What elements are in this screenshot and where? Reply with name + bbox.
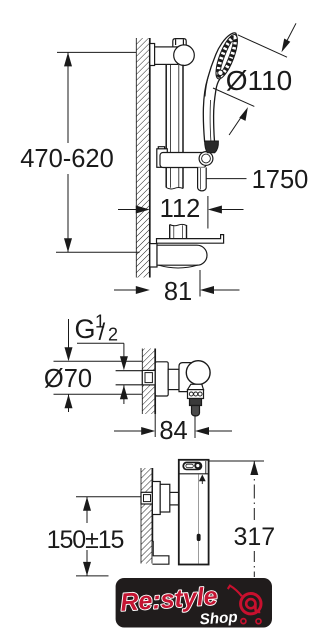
leader G1/2 <box>77 342 124 344</box>
svg-text:112: 112 <box>160 195 201 223</box>
body centerline with marker <box>197 475 201 564</box>
spray center circle <box>218 70 223 75</box>
soap dish tray <box>157 235 224 244</box>
pipe fitting in wall <box>142 370 155 385</box>
dimension Ø70 extension top <box>54 360 143 362</box>
hand shower head and handle outline <box>203 32 241 141</box>
dimension 150±15 <box>76 497 109 576</box>
dimension Ø70 extension bottom <box>54 393 143 395</box>
@ cart icon <box>228 586 261 624</box>
wall middle section <box>142 349 155 415</box>
wall fitting (inlet union) <box>141 492 152 504</box>
dimension 112 <box>118 196 244 229</box>
lower wall bracket step <box>152 542 169 565</box>
dimension Ø110 extension line top <box>238 35 287 57</box>
mixer housing <box>179 363 202 392</box>
top cap detail (outlet top view) <box>182 462 202 471</box>
svg-text:/: / <box>99 319 106 346</box>
dimension Ø110 arrow top <box>282 23 297 52</box>
svg-text:Shop: Shop <box>199 609 238 629</box>
dimension 150±15 top extension <box>76 496 143 498</box>
G1/2 arrow upper (points down to pipe top edge) <box>120 343 128 370</box>
svg-text:1750: 1750 <box>252 166 309 194</box>
mixer escutcheon <box>155 362 168 396</box>
dimension Ø110 arrow bottom <box>229 107 248 135</box>
soap dish wall bracket <box>150 244 207 268</box>
wall top section <box>136 38 150 278</box>
rail holder / slider <box>157 147 213 168</box>
dimension 470-620 extension line top <box>57 51 136 53</box>
inlet escutcheon plate <box>152 482 160 515</box>
G1/2 arrow lower (points up to pipe bottom edge) <box>120 385 128 404</box>
small arrow marker under cap <box>199 475 206 485</box>
dimension 470-620 extension line bottom <box>56 251 140 253</box>
dimension 84 <box>114 414 232 438</box>
dimension Ø70 arrow bottom <box>65 394 73 412</box>
svg-text:2: 2 <box>108 325 118 345</box>
dimension Ø110 extension line bottom <box>213 88 254 106</box>
svg-text:84: 84 <box>159 417 187 445</box>
handle connector (dark) <box>205 141 219 153</box>
dimension 470-620 line and arrows <box>64 52 72 252</box>
dimension Ø70 arrow top <box>65 319 73 361</box>
svg-text:G: G <box>75 314 96 344</box>
supply pipe behind wall <box>116 371 143 385</box>
inlet block <box>160 484 170 512</box>
spray plate ring <box>212 32 242 81</box>
rail lower stub <box>170 224 187 238</box>
dimension 317 top extension <box>209 460 264 462</box>
mixer neck <box>168 369 179 389</box>
thermostat body <box>179 460 209 565</box>
dimension 81 <box>114 270 240 297</box>
shower rail <box>166 65 183 189</box>
svg-text:150±15: 150±15 <box>47 526 124 554</box>
svg-text:317: 317 <box>233 523 275 551</box>
inlet pipe <box>170 492 179 505</box>
svg-text:Ø110: Ø110 <box>226 65 292 96</box>
mixer knob <box>186 361 210 385</box>
hose connector dark <box>190 399 202 406</box>
wall bracket top <box>150 44 195 66</box>
svg-text:470-620: 470-620 <box>20 145 114 173</box>
bracket locking knob <box>173 39 186 48</box>
svg-text:81: 81 <box>164 278 192 306</box>
leader line 1750 <box>207 178 247 180</box>
shower hose <box>198 168 207 191</box>
hose stub <box>192 406 200 417</box>
dimension 317 line <box>250 461 258 577</box>
label G 1/2 <box>75 312 119 347</box>
outlet nut with balls <box>188 390 204 399</box>
logo Re:style Shop <box>116 578 272 628</box>
svg-text:Ø70: Ø70 <box>44 365 92 393</box>
wall bottom section <box>141 468 152 564</box>
mixer outlet <box>188 384 204 389</box>
